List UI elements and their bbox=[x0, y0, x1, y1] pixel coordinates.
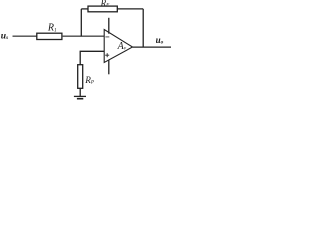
resistor R1 label bbox=[47, 23, 57, 34]
wire feedback rail right bbox=[117, 8, 143, 10]
wire output bbox=[133, 46, 172, 48]
ground bbox=[74, 95, 86, 97]
resistor RP bbox=[78, 65, 83, 89]
resistor RF label bbox=[100, 0, 111, 8]
negative supply stub bbox=[108, 60, 110, 74]
wire feedback rail left bbox=[81, 8, 88, 10]
pin minus sign bbox=[105, 36, 109, 38]
node A junction vertical wire up to feedback bbox=[80, 9, 82, 36]
wire input left bbox=[13, 35, 38, 37]
wire feedback down to output bbox=[142, 9, 144, 47]
op-amp U1 triangle bbox=[104, 30, 132, 63]
node us input terminal label bbox=[1, 32, 8, 42]
wire R1 to inverting input bbox=[62, 35, 104, 37]
resistor RP label bbox=[84, 75, 94, 86]
positive supply stub bbox=[108, 18, 110, 34]
wire noninverting input to RP bbox=[80, 51, 104, 64]
op-amp gain label Av bbox=[117, 41, 127, 52]
pin plus sign bbox=[105, 54, 109, 56]
resistor RF bbox=[88, 6, 117, 12]
node uo output label bbox=[156, 35, 164, 46]
resistor R1 bbox=[37, 33, 62, 39]
wire RP to ground bbox=[79, 88, 81, 96]
